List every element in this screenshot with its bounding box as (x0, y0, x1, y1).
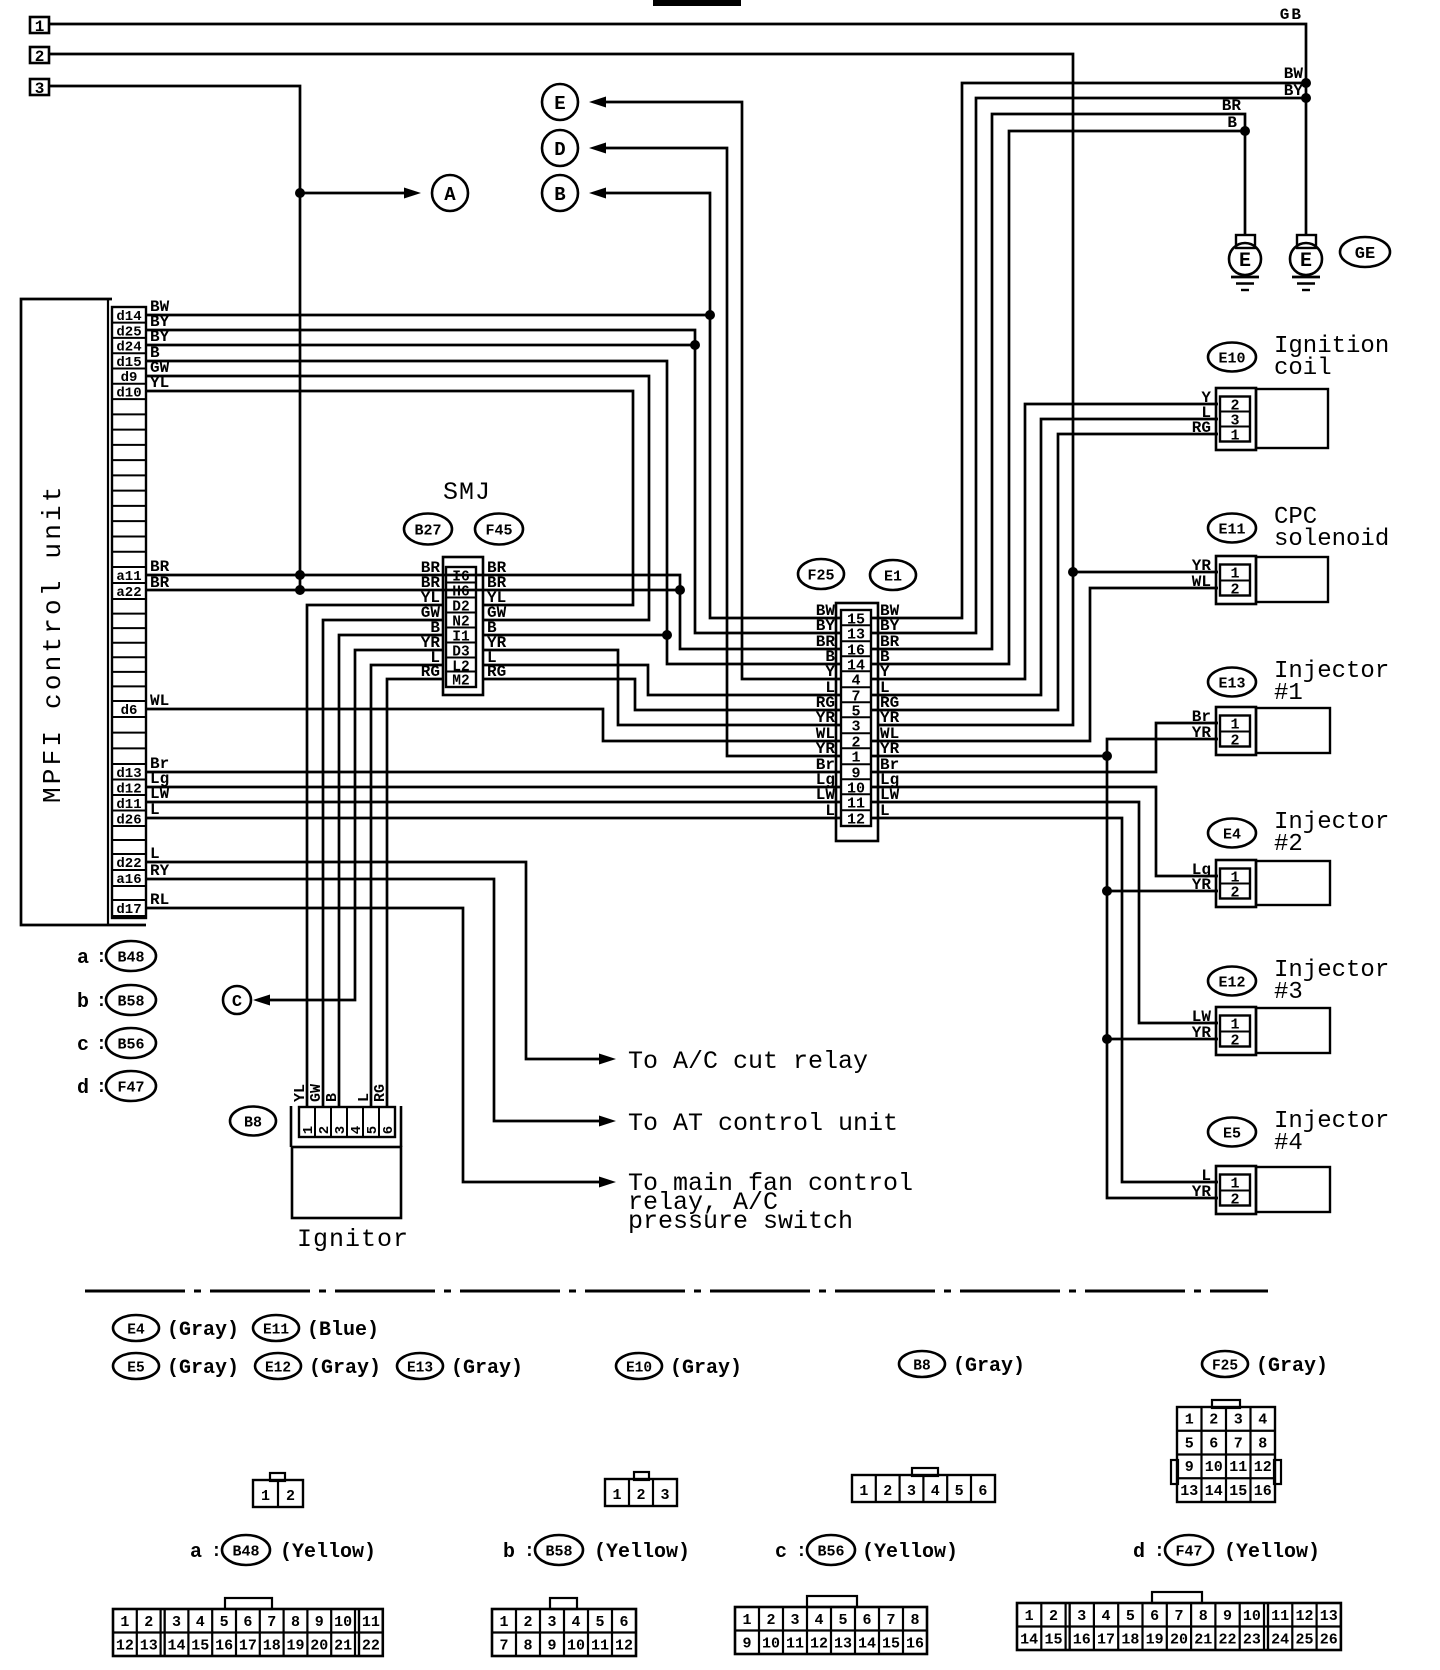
svg-text:5: 5 (1185, 1435, 1194, 1452)
wire L E1 to injector 4 pin 1 (872, 818, 1218, 1182)
wire Y E1 to ignition coil pin 2 (872, 404, 1218, 679)
svg-text:MPFI control unit: MPFI control unit (38, 483, 68, 803)
svg-text:22: 22 (1219, 1632, 1237, 1649)
svg-text:B: B (324, 1093, 341, 1102)
svg-text:#4: #4 (1274, 1130, 1303, 1157)
svg-text:d14: d14 (116, 309, 141, 325)
svg-text:c: c (77, 1034, 89, 1057)
svg-text:4: 4 (571, 1614, 580, 1631)
svg-text:16: 16 (1073, 1632, 1091, 1649)
svg-text:H6: H6 (452, 585, 469, 601)
svg-text:(Yellow): (Yellow) (280, 1541, 376, 1564)
svg-text:5: 5 (955, 1483, 964, 1500)
svg-text:11: 11 (362, 1614, 380, 1631)
svg-text:10: 10 (1243, 1608, 1261, 1625)
svg-text:E13: E13 (407, 1361, 433, 1377)
svg-text:2: 2 (1230, 733, 1239, 750)
svg-text:2: 2 (1209, 1412, 1218, 1429)
svg-text:2: 2 (636, 1487, 645, 1504)
wire Br E1 to injector 1 pin 1 (872, 723, 1218, 772)
svg-text:YL: YL (292, 1084, 309, 1102)
svg-text:12: 12 (847, 812, 865, 829)
wire B (E1 pin14 right to left ground) (872, 131, 1245, 664)
svg-text:10: 10 (334, 1614, 352, 1631)
svg-text:coil: coil (1274, 355, 1332, 382)
svg-text:1: 1 (851, 750, 860, 767)
svg-text:A: A (444, 184, 456, 206)
svg-text:7: 7 (267, 1614, 276, 1631)
connector F25 (798, 559, 844, 589)
legend E10 (Gray) (616, 1353, 662, 1379)
wire d15 B (to F25 pin 14) (146, 361, 840, 664)
connector view d 26-pin (1152, 1592, 1202, 1603)
svg-text:2: 2 (1230, 885, 1239, 902)
wire SMJ L2 L to ignitor pin 5 (371, 665, 443, 1107)
wire YR E1 pin 1 (injector feed) (872, 755, 1107, 758)
svg-text:17: 17 (1097, 1632, 1115, 1649)
svg-text:18: 18 (1121, 1632, 1139, 1649)
svg-text:3: 3 (790, 1612, 799, 1629)
svg-text:1: 1 (1025, 1608, 1034, 1625)
svg-text:a: a (77, 947, 89, 970)
svg-text:B56: B56 (817, 1544, 844, 1561)
svg-text:d26: d26 (116, 812, 141, 828)
svg-text:14: 14 (858, 1636, 876, 1653)
node B (542, 175, 578, 211)
svg-text:E5: E5 (127, 1361, 144, 1377)
svg-text:6: 6 (381, 1126, 397, 1134)
svg-text:21: 21 (334, 1638, 352, 1655)
connector E5 (1208, 1118, 1256, 1147)
svg-text:B: B (554, 184, 565, 206)
wire BR (E1 pin16 right to left ground) (872, 114, 1245, 649)
wire SMJ D3 YR right (to F25 pin 3) (483, 650, 840, 725)
wire Lg E1 to injector 2 pin 1 (872, 787, 1218, 876)
wire d25 BY (to F25 pin 13) (146, 330, 840, 633)
svg-text:E11: E11 (1218, 522, 1245, 539)
svg-text:8: 8 (523, 1638, 532, 1655)
svg-text:2: 2 (144, 1614, 153, 1631)
svg-text:2: 2 (766, 1612, 775, 1629)
svg-text:17: 17 (239, 1638, 257, 1655)
svg-text:16: 16 (215, 1638, 233, 1655)
svg-text:19: 19 (1146, 1632, 1164, 1649)
connector F45 (475, 514, 523, 545)
svg-text:1: 1 (1230, 1176, 1239, 1193)
svg-text:1: 1 (1185, 1412, 1194, 1429)
svg-text:(Yellow): (Yellow) (1224, 1541, 1320, 1564)
svg-text:10: 10 (1205, 1459, 1223, 1476)
wire a16 RY to AT control unit (146, 879, 599, 1121)
svg-text:1: 1 (35, 18, 45, 36)
svg-text:4: 4 (931, 1483, 940, 1500)
wire d22 L to A/C cut relay (146, 862, 599, 1059)
svg-text:12: 12 (1254, 1459, 1272, 1476)
svg-text:1: 1 (1230, 428, 1239, 445)
svg-text:(Gray): (Gray) (1256, 1355, 1328, 1378)
svg-text:L: L (356, 1093, 373, 1102)
MPFI connector strip (107, 299, 109, 925)
svg-text:11: 11 (591, 1638, 609, 1655)
svg-text:E: E (1300, 250, 1312, 273)
svg-text:4: 4 (851, 673, 860, 690)
svg-text:1: 1 (859, 1483, 868, 1500)
svg-text:SMJ: SMJ (443, 478, 491, 507)
svg-text:3: 3 (172, 1614, 181, 1631)
node A (432, 175, 468, 211)
svg-text:14: 14 (167, 1638, 185, 1655)
node E (542, 84, 578, 120)
svg-text:E10: E10 (1218, 351, 1245, 368)
connector E4 (1208, 819, 1256, 848)
connector E11 (1208, 514, 1256, 543)
svg-text:L: L (825, 802, 835, 820)
svg-text:E4: E4 (1223, 827, 1241, 844)
svg-text:WL: WL (150, 692, 169, 710)
svg-text:D2: D2 (452, 600, 469, 616)
svg-text:2: 2 (883, 1483, 892, 1500)
svg-text:11: 11 (786, 1636, 804, 1653)
svg-text:YR: YR (1192, 876, 1212, 894)
connector B27 (404, 514, 452, 545)
svg-text:b: b (77, 991, 89, 1014)
svg-text:d15: d15 (116, 355, 141, 371)
svg-text:12: 12 (116, 1638, 134, 1655)
svg-text:5: 5 (1126, 1608, 1135, 1625)
MPFI control unit bracket (21, 299, 146, 925)
connector GE (1340, 237, 1390, 267)
svg-text:8: 8 (1199, 1608, 1208, 1625)
svg-text:B58: B58 (545, 1544, 572, 1561)
svg-text:E11: E11 (263, 1323, 289, 1339)
svg-text:16: 16 (1254, 1483, 1272, 1500)
svg-text:9: 9 (1223, 1608, 1232, 1625)
svg-text:E13: E13 (1218, 676, 1245, 693)
wire YR feed to CPC solenoid pin 1 (1073, 571, 1218, 574)
wire d26 L (to F25 pin 12) (146, 817, 840, 820)
svg-text:3: 3 (851, 719, 860, 736)
svg-text:9: 9 (742, 1636, 751, 1653)
svg-text:6: 6 (1150, 1608, 1159, 1625)
svg-text:4: 4 (196, 1614, 205, 1631)
ground symbol E left (1236, 235, 1255, 248)
svg-text:d11: d11 (116, 797, 141, 813)
svg-text:23: 23 (1243, 1632, 1261, 1649)
svg-text:(Gray): (Gray) (670, 1357, 742, 1380)
svg-text:20: 20 (1170, 1632, 1188, 1649)
svg-text:5: 5 (838, 1612, 847, 1629)
svg-text:7: 7 (1174, 1608, 1183, 1625)
wire YR to injector 2 (1107, 890, 1218, 893)
svg-text:15: 15 (1229, 1483, 1247, 1500)
connector view a 22-pin (225, 1598, 272, 1609)
svg-text:2: 2 (1230, 1192, 1239, 1209)
wire SMJ D2 YL to ignitor pin 1 (307, 605, 443, 1107)
wire a11 BR (to F25 pin 16) (146, 575, 840, 649)
svg-text:4: 4 (1102, 1608, 1111, 1625)
svg-text:F47: F47 (117, 1080, 144, 1097)
svg-text:L: L (150, 845, 160, 863)
wire YR to injector 3 (1107, 1038, 1218, 1041)
wire WL E1 to CPC solenoid pin 2 (872, 588, 1218, 741)
junction dot YR CPC (1068, 567, 1078, 577)
svg-text:YR: YR (1192, 1183, 1212, 1201)
svg-text:11: 11 (847, 796, 865, 813)
svg-text:d9: d9 (121, 370, 138, 386)
connector view c 6-pin (912, 1468, 938, 1476)
svg-text:24: 24 (1271, 1632, 1289, 1649)
svg-text:19: 19 (286, 1638, 304, 1655)
wire SMJ N2 GW to ignitor pin 2 (323, 620, 443, 1107)
svg-text:#1: #1 (1274, 680, 1303, 707)
svg-text:(Gray): (Gray) (451, 1357, 523, 1380)
svg-text:4: 4 (349, 1126, 365, 1134)
svg-text:1: 1 (1230, 566, 1239, 583)
svg-text:11: 11 (1271, 1608, 1289, 1625)
svg-text:2: 2 (523, 1614, 532, 1631)
svg-text:10: 10 (762, 1636, 780, 1653)
svg-text:16: 16 (906, 1636, 924, 1653)
junction dot B net (662, 630, 672, 640)
wire SMJ D3 YR to connector C (270, 650, 443, 1000)
svg-text:1: 1 (301, 1126, 317, 1134)
wire 2 from box 2 down to E1 pin 3 (YR feed) (49, 54, 1073, 725)
svg-text:(Blue): (Blue) (307, 1319, 379, 1342)
wire SMJ I1 B right (to d15 B net) (483, 634, 667, 637)
wire to connector A (300, 192, 404, 195)
svg-text:a22: a22 (116, 585, 141, 601)
svg-text:3: 3 (1234, 1412, 1243, 1429)
svg-text:(Gray): (Gray) (309, 1357, 381, 1380)
connector view F25 16-pin grid (1212, 1400, 1240, 1408)
svg-text:10: 10 (567, 1638, 585, 1655)
ignitor connector bracket (290, 1106, 293, 1147)
wire d6 WL (to F25 pin 2) (146, 709, 840, 741)
svg-text:15: 15 (191, 1638, 209, 1655)
svg-text:B8: B8 (244, 1115, 262, 1132)
svg-text:2: 2 (1049, 1608, 1058, 1625)
svg-text:d24: d24 (116, 340, 141, 356)
svg-text:B56: B56 (117, 1037, 144, 1054)
svg-text:2: 2 (1230, 1033, 1239, 1050)
svg-text:WL: WL (1192, 573, 1211, 591)
svg-text:YL: YL (150, 374, 169, 392)
svg-text:12: 12 (615, 1638, 633, 1655)
svg-text:2: 2 (1230, 582, 1239, 599)
svg-text:(Yellow): (Yellow) (594, 1541, 690, 1564)
wire BW (E1 pin15 right to ground net) (872, 83, 1306, 618)
svg-text:To AT control unit: To AT control unit (628, 1109, 898, 1138)
svg-text:2: 2 (286, 1488, 295, 1505)
svg-text:8: 8 (291, 1614, 300, 1631)
wire d17 RL to main fan relay (146, 908, 599, 1182)
svg-text:Ignitor: Ignitor (297, 1225, 409, 1254)
ignition coil body (1216, 388, 1256, 450)
svg-text:14: 14 (1020, 1632, 1038, 1649)
svg-text:BR: BR (150, 574, 170, 592)
svg-text:B48: B48 (232, 1544, 259, 1561)
junction dot YR E4 (1102, 886, 1112, 896)
svg-text:(Gray): (Gray) (167, 1357, 239, 1380)
wire to connector E (feeds F25 pin 4 Y) (589, 97, 606, 108)
injector 3 body (1216, 1007, 1256, 1055)
injector 2 body (1216, 860, 1256, 907)
svg-text:RY: RY (150, 862, 170, 880)
wire YR injector feed vertical (1107, 739, 1218, 1198)
wire d14 BW (146, 314, 710, 317)
svg-text:E10: E10 (626, 1361, 652, 1377)
svg-text:15: 15 (1044, 1632, 1062, 1649)
svg-text:8: 8 (910, 1612, 919, 1629)
junction dot BY d24/d25 (690, 340, 700, 350)
svg-text:a: a (190, 1541, 202, 1564)
wire SMJ I1 B to ignitor pin 3 (339, 635, 443, 1107)
junction dot YR E13 (1102, 751, 1112, 761)
svg-text:I6: I6 (452, 570, 469, 586)
injector 4 body (1216, 1166, 1256, 1214)
svg-text:B: B (1227, 114, 1237, 132)
svg-text:12: 12 (1295, 1608, 1313, 1625)
svg-text:18: 18 (263, 1638, 281, 1655)
connector E12 (1208, 967, 1256, 996)
connector view a 2-pin (270, 1473, 285, 1481)
svg-text:To A/C cut relay: To A/C cut relay (628, 1047, 868, 1076)
svg-text:13: 13 (834, 1636, 852, 1653)
svg-text:B8: B8 (913, 1359, 930, 1375)
svg-text:pressure switch: pressure switch (628, 1207, 853, 1236)
junction dot BY-GB (1301, 93, 1311, 103)
svg-text:M2: M2 (452, 674, 469, 690)
svg-text:8: 8 (1258, 1435, 1267, 1452)
svg-text:3: 3 (1077, 1608, 1086, 1625)
svg-text:1: 1 (742, 1612, 751, 1629)
ground symbol E right (1297, 235, 1316, 248)
terminal box 2 (30, 47, 49, 63)
svg-text:6: 6 (1209, 1435, 1218, 1452)
wire to connector D (feeds F25 pin 1 YR) (589, 143, 606, 154)
svg-text:7: 7 (1234, 1435, 1243, 1452)
separator line (85, 1290, 1268, 1293)
ignitor pin row (299, 1107, 395, 1137)
wire a22 BR (146, 589, 680, 592)
svg-text:RG: RG (372, 1084, 389, 1102)
svg-text:B48: B48 (117, 950, 144, 967)
connector view b 3-pin (634, 1472, 649, 1480)
junction dot BW-GB (1301, 78, 1311, 88)
svg-text:#2: #2 (1274, 831, 1303, 858)
svg-text:6: 6 (619, 1614, 628, 1631)
connector E1 (870, 560, 916, 590)
svg-text:BR: BR (1222, 97, 1242, 115)
wire LW E1 to injector 3 pin 1 (872, 802, 1218, 1023)
svg-text:4: 4 (814, 1612, 823, 1629)
svg-text:BY: BY (1284, 82, 1304, 100)
SMJ connector body (443, 557, 483, 695)
svg-text:6: 6 (862, 1612, 871, 1629)
svg-text::: : (211, 1542, 222, 1562)
svg-text:1: 1 (499, 1614, 508, 1631)
connector view c 16-pin (807, 1596, 857, 1607)
svg-text:solenoid: solenoid (1274, 526, 1389, 553)
wire d24 BY (146, 344, 695, 347)
wire SMJ L2 L right (to F25 pin 7) (483, 665, 840, 695)
svg-text:7: 7 (886, 1612, 895, 1629)
svg-text:(Yellow): (Yellow) (862, 1541, 958, 1564)
svg-text:13: 13 (140, 1638, 158, 1655)
svg-text:d17: d17 (116, 902, 141, 918)
svg-text:9: 9 (1185, 1459, 1194, 1476)
terminal box 3 (30, 79, 49, 95)
svg-text::: : (796, 1542, 807, 1562)
svg-text:3: 3 (35, 80, 45, 98)
svg-text:YR: YR (1192, 1024, 1212, 1042)
svg-text:GW: GW (308, 1084, 325, 1102)
svg-text:#3: #3 (1274, 979, 1303, 1006)
svg-text:RG: RG (1192, 419, 1211, 437)
svg-text:d12: d12 (116, 781, 141, 797)
legend E12 (Gray) (255, 1353, 301, 1379)
svg-text:GE: GE (1355, 245, 1375, 264)
svg-text:13: 13 (1320, 1608, 1338, 1625)
svg-text:3: 3 (907, 1483, 916, 1500)
wire d10 YL (to SMJ D2) (146, 391, 633, 605)
svg-text:13: 13 (847, 627, 865, 644)
legend E11 (Blue) (253, 1315, 299, 1341)
svg-text:(Gray): (Gray) (167, 1319, 239, 1342)
svg-text:21: 21 (1194, 1632, 1212, 1649)
legend E4 (Gray) (113, 1315, 159, 1341)
svg-text:5: 5 (365, 1126, 381, 1134)
svg-text:YR: YR (1192, 724, 1212, 742)
svg-text:d: d (1133, 1541, 1145, 1564)
svg-text:1: 1 (261, 1488, 270, 1505)
svg-text:I1: I1 (452, 630, 470, 646)
svg-text:6: 6 (978, 1483, 987, 1500)
wire d13 Br (to F25 pin 9) (146, 771, 840, 774)
connector E10 (1208, 343, 1256, 372)
svg-text:5: 5 (220, 1614, 229, 1631)
svg-text:11: 11 (1229, 1459, 1247, 1476)
svg-text:D: D (554, 139, 565, 161)
ignitor body (292, 1147, 401, 1218)
junction dot B-BR (1240, 126, 1250, 136)
svg-text:F25: F25 (807, 568, 834, 585)
svg-text:3: 3 (547, 1614, 556, 1631)
wire RG E1 to ignition coil pin 1 (872, 434, 1218, 710)
svg-text:E1: E1 (884, 569, 902, 586)
svg-text:15: 15 (882, 1636, 900, 1653)
wire BY (E1 pin13 right to ground net) (872, 98, 1306, 633)
svg-text:25: 25 (1295, 1632, 1313, 1649)
svg-text:(Gray): (Gray) (953, 1355, 1025, 1378)
connector B8 (230, 1107, 276, 1136)
svg-text:C: C (232, 993, 242, 1012)
wire d9 GW (to SMJ N2) (146, 376, 649, 620)
svg-text:1: 1 (1230, 1017, 1239, 1034)
svg-text:2: 2 (317, 1126, 333, 1134)
svg-text:13: 13 (1180, 1483, 1198, 1500)
wire L E1 to ignition coil pin 3 (872, 419, 1218, 695)
svg-text:B27: B27 (414, 523, 441, 540)
svg-text:a11: a11 (116, 569, 141, 585)
wire SMJ M2 RG right (to F25 pin 5) (483, 679, 840, 710)
junction dots BR net (295, 188, 305, 198)
F25/E1 connector body (836, 603, 878, 841)
svg-text:26: 26 (1320, 1632, 1338, 1649)
svg-text:E12: E12 (1218, 975, 1245, 992)
connector view b 12-pin (550, 1598, 577, 1609)
wire 1 (GB) from box 1 to right ground (49, 24, 1306, 235)
